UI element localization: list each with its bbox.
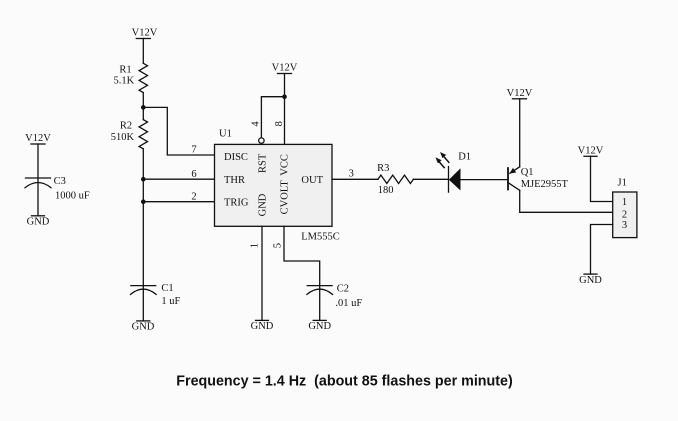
svg-text:C1: C1 — [161, 283, 173, 294]
svg-text:2: 2 — [191, 191, 196, 202]
svg-text:3: 3 — [349, 168, 354, 179]
svg-text:180: 180 — [378, 185, 394, 196]
svg-text:1 uF: 1 uF — [161, 296, 180, 307]
svg-text:GND: GND — [579, 275, 602, 286]
svg-text:V12V: V12V — [132, 28, 158, 39]
svg-text:C2: C2 — [337, 283, 349, 294]
svg-text:7: 7 — [191, 145, 196, 156]
svg-text:5.1K: 5.1K — [114, 76, 135, 87]
svg-text:DISC: DISC — [224, 152, 248, 163]
svg-text:THR: THR — [224, 175, 245, 186]
svg-text:TRIG: TRIG — [224, 197, 249, 208]
svg-text:OUT: OUT — [301, 175, 323, 186]
svg-text:V12V: V12V — [578, 146, 604, 157]
svg-text:R2: R2 — [120, 121, 132, 132]
svg-text:8: 8 — [274, 121, 285, 126]
svg-text:6: 6 — [191, 169, 196, 180]
svg-text:MJE2955T: MJE2955T — [521, 179, 569, 190]
svg-text:4: 4 — [251, 121, 262, 127]
svg-text:.01 uF: .01 uF — [335, 298, 362, 309]
svg-text:GND: GND — [27, 217, 50, 228]
svg-text:V12V: V12V — [507, 88, 533, 99]
svg-text:510K: 510K — [111, 132, 135, 143]
svg-text:CVOLT: CVOLT — [280, 180, 291, 215]
svg-text:1000 uF: 1000 uF — [55, 190, 90, 201]
svg-text:GND: GND — [258, 193, 269, 216]
svg-text:1: 1 — [622, 197, 627, 208]
svg-text:3: 3 — [622, 220, 627, 231]
svg-text:VCC: VCC — [280, 154, 291, 176]
svg-text:2: 2 — [622, 209, 627, 220]
svg-text:Q1: Q1 — [521, 167, 534, 178]
svg-text:GND: GND — [308, 321, 331, 332]
svg-text:GND: GND — [132, 322, 155, 333]
svg-text:D1: D1 — [458, 151, 471, 162]
svg-text:V12V: V12V — [272, 63, 298, 74]
svg-text:Frequency = 1.4 Hz (about 85: Frequency = 1.4 Hz (about 85 flashes per… — [176, 374, 513, 390]
svg-text:5: 5 — [273, 243, 284, 248]
svg-text:R3: R3 — [377, 163, 389, 174]
svg-text:V12V: V12V — [25, 133, 51, 144]
svg-text:LM555C: LM555C — [301, 231, 340, 242]
svg-text:C3: C3 — [54, 176, 66, 187]
svg-text:1: 1 — [249, 243, 260, 248]
svg-text:RST: RST — [258, 153, 269, 173]
svg-text:R1: R1 — [119, 64, 131, 75]
svg-text:GND: GND — [251, 321, 274, 332]
svg-text:U1: U1 — [219, 129, 232, 140]
svg-text:J1: J1 — [618, 178, 627, 189]
